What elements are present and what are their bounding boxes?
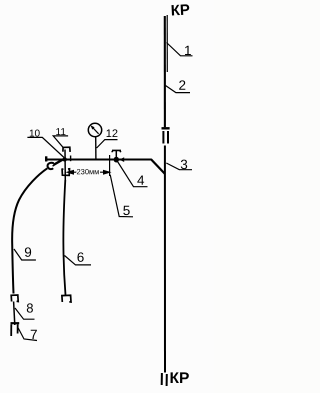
valve (item 4) on branch pipe xyxy=(112,150,124,162)
hose coupling head (right bottom, end of hose 6) xyxy=(62,295,71,302)
wire riser lower segment xyxy=(164,146,166,373)
node 5 label xyxy=(110,175,133,217)
svg-text:230мм: 230мм xyxy=(76,167,99,176)
svg-text:10: 10 xyxy=(29,129,41,140)
dimension 230мм xyxy=(68,155,110,176)
wire horizontal branch pipe 5 xyxy=(47,159,165,174)
node 10 label xyxy=(27,137,64,157)
svg-text:КР: КР xyxy=(170,2,190,20)
svg-text:1: 1 xyxy=(184,43,192,58)
svg-text:9: 9 xyxy=(24,245,32,260)
svg-text:2: 2 xyxy=(178,78,186,93)
pressure gauge (item 12) xyxy=(88,123,101,159)
svg-text:12: 12 xyxy=(106,128,118,140)
clamp lower bracket xyxy=(62,169,69,176)
svg-text:11: 11 xyxy=(55,127,66,138)
hose 9 (long hose to nozzle) xyxy=(12,168,47,293)
wire connector from pipe junction to coupling head xyxy=(54,159,64,165)
wire clamp centre stem / hose 6 start xyxy=(64,150,66,181)
node 11 label xyxy=(53,136,68,147)
flange tick on pipe right of clamp xyxy=(70,156,72,162)
svg-text:7: 7 xyxy=(30,327,38,342)
clamp upper bracket (item 11) xyxy=(63,147,70,152)
union/coupling on riser (bar + double ticks) xyxy=(162,128,170,143)
node 4 label xyxy=(118,162,148,187)
hose coupling head (left bottom, item 8 area) xyxy=(11,295,18,302)
union/coupling at riser bottom (double ticks) xyxy=(162,373,167,386)
node 3 label xyxy=(166,163,192,170)
node 9 label xyxy=(14,249,36,260)
pipe end cap (left) xyxy=(45,156,47,161)
svg-text:6: 6 xyxy=(77,250,85,265)
node 8 label xyxy=(15,308,35,319)
svg-text:3: 3 xyxy=(180,157,188,172)
node 6 label xyxy=(65,256,92,265)
fire nozzle (item 7) xyxy=(11,323,20,336)
node 2 label xyxy=(166,86,191,93)
svg-text:8: 8 xyxy=(26,301,33,316)
wire riser upper segment (double line) xyxy=(165,15,168,127)
coupling head hook (fire hose head at pipe end) xyxy=(48,163,55,169)
svg-text:КР: КР xyxy=(169,370,189,387)
node 12 label xyxy=(97,140,118,148)
wire from coupling to nozzle xyxy=(14,302,15,326)
hose 6 (short hose down from clamp) xyxy=(63,180,65,295)
svg-text:4: 4 xyxy=(137,173,145,188)
node 7 label xyxy=(18,328,37,341)
svg-text:5: 5 xyxy=(123,203,131,218)
node 1 label xyxy=(167,43,193,56)
junction blob on pipe xyxy=(62,157,66,161)
